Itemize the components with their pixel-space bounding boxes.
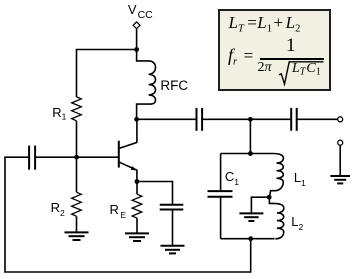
equation fr = — [228, 46, 253, 68]
wire feedback loop — [5, 157, 251, 272]
inductor RFC — [137, 50, 156, 120]
capacitor (input coupling) — [29, 146, 35, 170]
ground RE — [125, 233, 149, 241]
fraction numerator 1 — [286, 36, 296, 55]
label C1 — [225, 169, 239, 187]
label RFC — [160, 78, 188, 93]
terminal ground reference — [338, 140, 343, 145]
label RE — [110, 202, 127, 220]
capacitor (right coupling) — [291, 108, 297, 131]
inductor L2 — [269, 197, 283, 239]
node center tap — [267, 195, 272, 200]
inductor L1 — [269, 154, 283, 198]
denominator 2 pi — [258, 61, 272, 75]
radicand LT C1 — [292, 62, 321, 78]
label L2 — [291, 214, 303, 232]
wire emitter to bypass cap — [137, 182, 173, 205]
fraction bar — [260, 58, 324, 60]
label R1 — [52, 105, 66, 122]
wire collector to coupling cap — [137, 118, 196, 120]
wire right cap to output terminal — [297, 118, 338, 120]
node Vcc junction — [134, 47, 139, 52]
wire emitter to RE — [136, 182, 138, 195]
capacitor C1 — [208, 154, 233, 239]
wire output node down to tank — [249, 119, 251, 153]
wire coupling cap to tank node — [202, 118, 250, 120]
ground center tap — [239, 213, 263, 221]
resistor R1 — [72, 97, 82, 121]
ground bypass — [161, 246, 185, 254]
capacitor (output coupling) — [197, 108, 203, 131]
node collector — [134, 117, 139, 122]
node output — [248, 117, 253, 122]
label Vcc — [128, 2, 153, 21]
label L1 — [294, 170, 306, 188]
wire RE to ground — [136, 218, 138, 233]
Vcc terminal diamond — [133, 22, 140, 29]
radical sign — [220, 11, 332, 92]
wire tank bottom rail — [221, 238, 275, 240]
transistor Q1 — [119, 119, 137, 181]
wire bypass cap to ground — [172, 210, 174, 246]
wire tank node to right cap — [250, 118, 290, 120]
formula box — [218, 9, 331, 91]
label R2 — [51, 200, 65, 218]
node emitter — [135, 179, 140, 184]
wire base node to R2 — [76, 157, 78, 192]
node tank bottom — [248, 236, 253, 241]
equation LT = L1 + L2 — [229, 14, 244, 35]
wire terminal to ground — [339, 145, 341, 176]
wire R1 bottom to base node — [76, 121, 78, 157]
node base — [74, 155, 79, 160]
ground right — [330, 176, 350, 183]
node tank top — [248, 151, 253, 156]
wire R2 to ground — [76, 216, 78, 232]
wire Vcc stem — [136, 29, 138, 49]
ground R2 — [65, 232, 89, 240]
resistor RE — [132, 194, 142, 218]
wire center tap to ground — [251, 197, 269, 213]
wire Vcc node to R1 top — [77, 50, 137, 97]
terminal output — [338, 117, 343, 122]
capacitor (emitter bypass) — [160, 205, 184, 210]
wire base node to transistor base — [77, 156, 119, 158]
resistor R2 — [72, 192, 82, 216]
wire input cap to base node — [35, 156, 76, 158]
wire tank top rail — [221, 153, 274, 155]
